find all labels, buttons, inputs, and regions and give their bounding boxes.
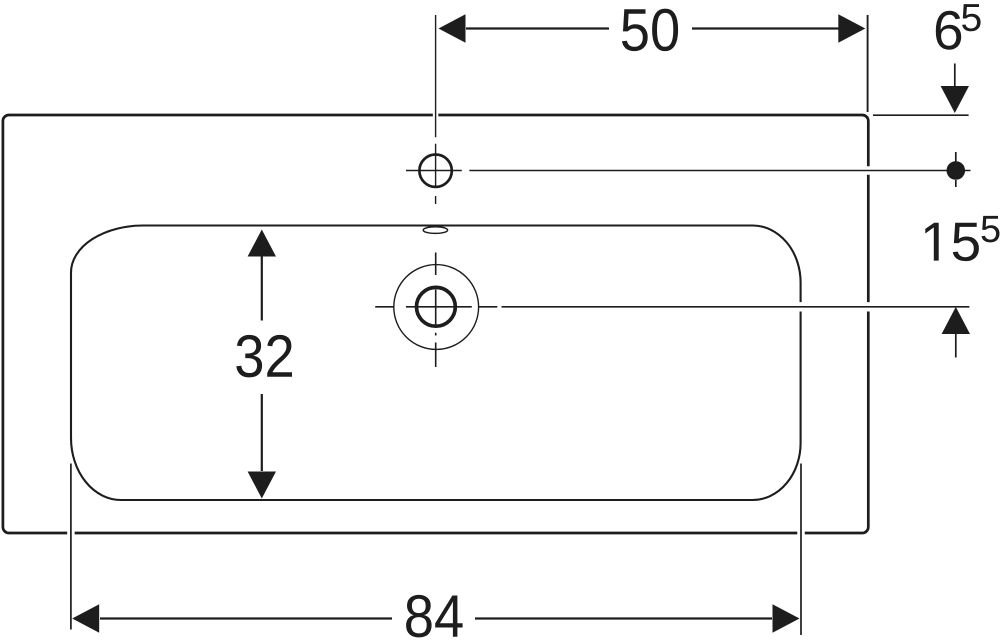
drain centerline vertical <box>435 253 437 368</box>
dimension 15.5: superscript <box>982 216 1000 243</box>
dimension 32: dimension line lower <box>261 394 263 471</box>
dimension 84: right arrowhead <box>773 604 800 633</box>
washbasin outer outline <box>3 115 868 533</box>
dimension 50: right arrowhead <box>838 14 865 43</box>
inner bowl outline <box>71 225 801 500</box>
dimension 15.5: text <box>925 223 979 261</box>
faucet hole <box>419 155 451 187</box>
dimension 6.5: reference dot on faucet line <box>947 161 966 180</box>
dimension 32: text <box>236 335 292 378</box>
dimension 84: left extension line <box>70 464 72 630</box>
dimension 50: right extension line <box>867 15 869 112</box>
dimension 6.5: down arrowhead <box>941 86 969 113</box>
dimension 84: text <box>406 595 463 638</box>
faucet hole centerline horizontal to right reference dot <box>406 170 971 172</box>
drain inner ring <box>417 287 456 326</box>
drain outer circle <box>394 265 479 350</box>
overflow slot <box>423 227 447 234</box>
dimension 6.5: arrow stem <box>954 64 956 88</box>
dimension 6.5: superscript <box>962 4 981 31</box>
dimension 32: dimension line upper <box>261 257 263 321</box>
dimension 84: left arrowhead <box>72 604 99 633</box>
dimension 32: up arrowhead <box>248 230 276 257</box>
dimension 84: dimension line <box>100 617 772 619</box>
dimension 32: down arrowhead <box>248 472 276 499</box>
dimension 6.5: dot tick marks <box>955 152 957 187</box>
faucet hole centerline vertical <box>435 15 437 204</box>
dimension 50: left arrowhead <box>439 14 466 43</box>
dimension 50: text <box>622 9 678 52</box>
dimension 50: dimension line <box>466 27 840 29</box>
dimension 6.5: top edge extension line <box>873 114 969 116</box>
line halo gaps at outline crossings <box>71 106 882 543</box>
dimension 6.5: text <box>936 11 961 50</box>
dimension 15.5: up arrowhead <box>942 307 970 334</box>
dimension 84: right extension line <box>800 464 802 636</box>
dimension 15.5: arrow stem <box>955 334 957 358</box>
drain centerline horizontal to right arrow reference <box>375 306 969 308</box>
